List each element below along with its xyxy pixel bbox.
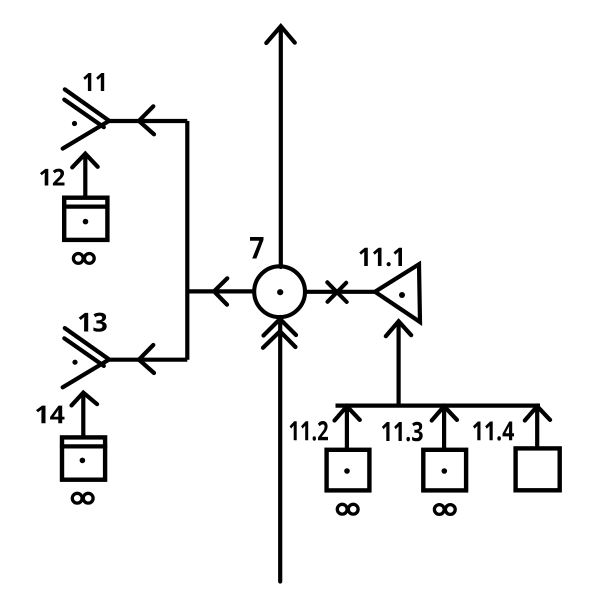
drop wire to box 11.3 <box>442 406 446 449</box>
node 7: junction circle <box>254 266 305 317</box>
valve 11.1 dot <box>399 292 405 298</box>
infinity symbol below box 14 (left loop) <box>72 493 82 503</box>
infinity symbol below box 11.2 (left loop) <box>337 504 347 514</box>
arrow wire from box 12 up to claw 11 <box>83 155 87 197</box>
wire from node 7 to left vertical bus <box>187 289 255 293</box>
claw symbol 13: upper second prong <box>64 338 104 366</box>
arrowhead of arrow from box 14 <box>72 393 98 406</box>
arrowhead into valve 11.1 from below <box>386 321 411 336</box>
claw symbol 11: upper second prong <box>64 100 104 128</box>
X mark on wire to valve <box>327 282 346 302</box>
infinity symbol below box 12 (right loop) <box>84 254 94 264</box>
arrowhead double chevron into node 7 from below (lower) <box>263 331 296 348</box>
arrowhead pointing left on top branch <box>139 106 154 134</box>
infinity symbol below box 14 (right loop) <box>83 493 93 503</box>
valve triangle 11.1 <box>375 264 420 322</box>
label 14 <box>36 406 65 424</box>
box 12 inner lid line <box>62 204 109 208</box>
claw 13 dot <box>72 360 77 365</box>
label 11.1 <box>359 248 402 267</box>
box 11.2 <box>327 450 370 491</box>
label 12 <box>40 169 65 186</box>
arrowhead pointing left on wire to left bus <box>214 278 227 304</box>
arrowhead double chevron into node 7 from below (upper) <box>264 319 297 336</box>
center dot of node 7 <box>277 289 283 295</box>
claw symbol 11: upper main prong <box>65 89 109 120</box>
arrowhead at top of main line <box>266 26 295 43</box>
claw symbol 13: lower prong <box>63 360 109 388</box>
wire: bottom branch from bus to claw 13 <box>109 358 187 362</box>
label 13 <box>79 313 107 332</box>
box 14: reservoir square <box>62 437 105 479</box>
box 14 inner lid line <box>60 444 107 448</box>
arrowhead up into bus from box 11.4 <box>525 406 550 420</box>
box 12: reservoir square <box>64 198 107 240</box>
infinity symbol below box 12 (left loop) <box>73 254 83 264</box>
wire from manifold bus up to valve 11.1 <box>397 323 401 406</box>
box 11.3 <box>423 450 466 491</box>
drop wire to box 11.2 <box>345 406 349 449</box>
box 11.3 dot <box>442 468 448 474</box>
box 11.4 <box>516 448 560 490</box>
arrowhead up into bus from box 11.3 <box>432 406 457 420</box>
box 12 dot <box>83 219 89 225</box>
wire: main vertical flow line (top segment) <box>279 28 283 267</box>
box 11.2 dot <box>344 468 350 474</box>
label 7 <box>250 237 264 259</box>
label 11.4 <box>473 422 514 441</box>
wire: manifold bus <box>336 404 541 408</box>
infinity symbol below box 11.2 (right loop) <box>348 504 358 514</box>
infinity symbol below box 11.3 (right loop) <box>445 505 455 515</box>
claw 11 dot <box>72 121 77 126</box>
claw symbol 13: upper main prong <box>65 328 109 359</box>
wire: top branch from bus to claw 11 <box>109 119 187 123</box>
arrowhead of arrow from box 12 <box>72 154 98 168</box>
drop wire to box 11.4 <box>535 406 539 448</box>
wire: main vertical flow line (bottom segment) <box>278 317 282 582</box>
arrowhead up into bus from box 11.2 <box>335 406 360 420</box>
box 14 dot <box>80 458 86 464</box>
label 11.3 <box>382 422 423 442</box>
wire from node 7 to valve 11.1 <box>305 290 376 294</box>
arrow wire from box 14 up to claw 13 <box>81 394 85 437</box>
infinity symbol below box 11.3 (left loop) <box>434 505 444 515</box>
label 11 <box>83 73 104 91</box>
label 11.2 <box>290 421 328 441</box>
wire: left vertical bus <box>185 121 189 360</box>
arrowhead pointing left on bottom branch <box>139 345 154 373</box>
claw symbol 11: lower prong <box>63 121 109 149</box>
